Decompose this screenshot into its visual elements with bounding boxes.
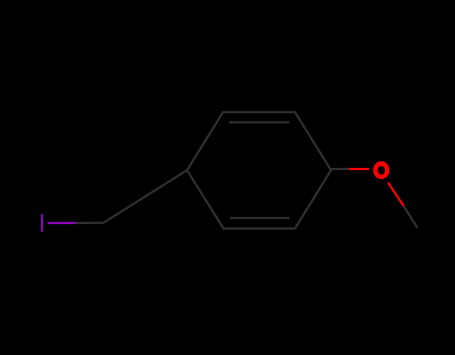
atom label I (iodine): [41, 214, 43, 232]
wire: C-I bond iodine half (violet): [48, 222, 76, 224]
wire: O-CH3 bond oxygen half (red): [388, 183, 404, 207]
wire: O-CH3 bond methyl half (black): [404, 207, 417, 228]
benzene ring outline: [187, 112, 331, 228]
atom label O (oxygen): [375, 164, 387, 177]
wire: C-I bond carbon half (black): [76, 222, 104, 224]
wire: ring to O bond carbon half (black): [331, 168, 349, 170]
wire: ring to O bond oxygen half (red): [349, 168, 369, 170]
double bond inner line (top): [229, 121, 290, 123]
double bond inner line (bottom): [230, 217, 289, 219]
wire: chain bond CH2 to ring: [103, 170, 187, 223]
